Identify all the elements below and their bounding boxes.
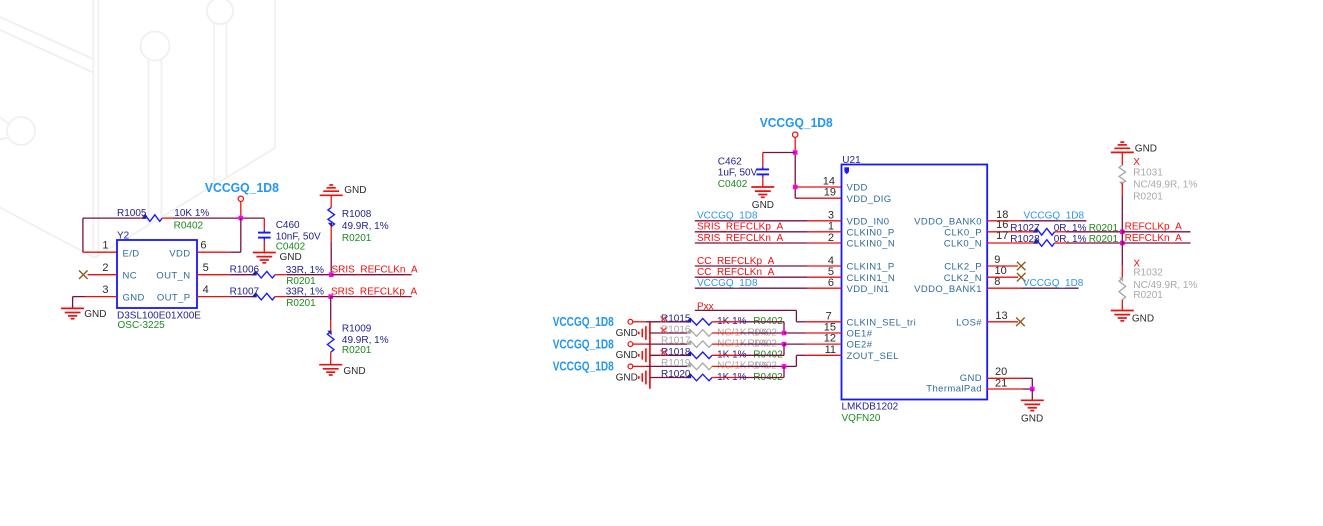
svg-text:8: 8: [994, 276, 1000, 288]
wire: [287, 274, 331, 276]
wire pin 21: [987, 388, 1022, 390]
svg-text:CLK2_N: CLK2_N: [944, 273, 982, 284]
resistor R1015: [686, 318, 712, 325]
resistor R1027: [1033, 228, 1055, 235]
wire: [799, 197, 842, 199]
resistor R1031 (NC): [1119, 165, 1126, 186]
svg-text:VQFN20: VQFN20: [842, 413, 881, 424]
resistor R1019: [686, 363, 712, 370]
junction OE2#: [782, 342, 787, 347]
wire net SRIS_REFCLKn_A: [331, 274, 411, 276]
svg-text:R0201: R0201: [1133, 191, 1163, 202]
svg-text:VCCGQ_1D8: VCCGQ_1D8: [205, 180, 279, 195]
svg-text:REFCLKn_A: REFCLKn_A: [1125, 233, 1183, 244]
wire: [712, 365, 740, 367]
junction C462 tap: [793, 150, 798, 155]
junction pin 14: [793, 185, 798, 190]
wire pin 18: [987, 220, 1020, 222]
svg-text:GND: GND: [343, 366, 365, 377]
wire pin 5 net CC_REFCLKn_A: [695, 276, 808, 278]
capacitor C462: [757, 166, 770, 187]
power symbol: [628, 319, 633, 324]
ground GND (R1031 top): [1111, 142, 1134, 152]
svg-text:CLKIN0_P: CLKIN0_P: [847, 227, 895, 238]
wire: [633, 343, 646, 345]
svg-text:12: 12: [824, 333, 836, 345]
svg-text:OE1#: OE1#: [847, 329, 873, 340]
wire: [1121, 152, 1123, 165]
no-connect X pin 10: [1017, 273, 1026, 282]
svg-text:33R, 1%: 33R, 1%: [286, 287, 324, 298]
wire pin 2 net SRIS_REFCLKn_A: [695, 242, 808, 244]
wire: [1121, 266, 1123, 279]
svg-text:GND: GND: [616, 372, 638, 383]
wire: [230, 251, 241, 253]
svg-text:17: 17: [996, 230, 1008, 242]
svg-text:VCCGQ_1D8: VCCGQ_1D8: [697, 211, 758, 222]
svg-text:1: 1: [828, 221, 834, 233]
ground (rotated): [639, 371, 646, 385]
no-connect X on pin 2: [79, 270, 88, 279]
svg-text:SRIS_REFCLKp_A: SRIS_REFCLKp_A: [697, 222, 783, 233]
wire: [794, 137, 796, 152]
wire: [330, 297, 332, 321]
wire: [794, 153, 796, 188]
junction REFCLKn_A: [1120, 241, 1125, 246]
junction VCC node: [239, 216, 244, 221]
wire: [330, 242, 332, 275]
junction OE1#: [782, 331, 787, 336]
svg-text:ThermalPad: ThermalPad: [926, 384, 982, 395]
svg-text:R0201: R0201: [1089, 234, 1119, 245]
svg-text:R1018: R1018: [661, 347, 691, 358]
svg-text:VCCGQ_1D8: VCCGQ_1D8: [697, 278, 758, 289]
wire net REFCLKp_A: [1122, 231, 1190, 233]
wire pin 10: [987, 276, 1018, 278]
svg-text:VCCGQ_1D8: VCCGQ_1D8: [1023, 278, 1084, 289]
wire net Pxx: [695, 309, 797, 311]
wire: [1121, 243, 1123, 266]
resistor R1028: [1033, 240, 1055, 247]
wire: [650, 354, 687, 356]
svg-text:R1020: R1020: [661, 369, 691, 380]
svg-text:C0402: C0402: [276, 242, 306, 253]
wire: [240, 202, 242, 219]
svg-text:VCCGQ_1D8: VCCGQ_1D8: [553, 314, 614, 329]
wire net SRIS_REFCLKp_A: [331, 296, 412, 298]
wire: [240, 218, 242, 252]
svg-text:ZOUT_SEL: ZOUT_SEL: [847, 351, 899, 362]
power symbol: [628, 342, 633, 347]
wire net REFCLKn_A: [1122, 242, 1190, 244]
power symbol: [628, 364, 633, 369]
resistor R1008: [328, 208, 335, 228]
svg-text:GND: GND: [280, 252, 302, 263]
power symbol: [793, 132, 798, 137]
wire: [1055, 242, 1066, 244]
svg-text:NC/49.9R, 1%: NC/49.9R, 1%: [1133, 179, 1197, 190]
resistor R1020: [686, 374, 712, 381]
wire pin 16: [987, 231, 1034, 233]
wire pin 14: [795, 186, 841, 188]
svg-text:GND: GND: [1132, 314, 1154, 325]
wire: [230, 296, 253, 298]
wire: [330, 352, 332, 365]
svg-text:C462: C462: [718, 156, 742, 167]
svg-text:19: 19: [824, 187, 836, 199]
svg-text:VCCGQ_1D8: VCCGQ_1D8: [553, 359, 614, 374]
svg-text:R1032: R1032: [1133, 268, 1163, 279]
capacitor C460: [258, 218, 271, 252]
wire pin 4 OUT_P: [197, 296, 230, 298]
svg-text:GND: GND: [616, 350, 638, 361]
svg-text:4: 4: [828, 255, 834, 267]
svg-text:CLK0_P: CLK0_P: [944, 227, 982, 238]
power symbol: [238, 196, 243, 201]
ground (rotated): [639, 326, 646, 340]
svg-text:2: 2: [102, 262, 108, 274]
svg-text:R1005: R1005: [117, 208, 147, 219]
resistor R1006: [252, 271, 275, 278]
wire pin 7: [796, 321, 806, 323]
svg-text:SRIS_REFCLKn_A: SRIS_REFCLKn_A: [697, 233, 783, 244]
svg-text:3: 3: [102, 284, 108, 296]
svg-text:1uF, 50V: 1uF, 50V: [718, 168, 758, 179]
svg-text:CC_REFCLKp_A: CC_REFCLKp_A: [697, 256, 775, 267]
svg-text:13: 13: [995, 310, 1007, 322]
svg-text:16: 16: [996, 219, 1008, 231]
svg-text:R1015: R1015: [661, 313, 691, 324]
svg-text:0R, 1%: 0R, 1%: [1054, 234, 1087, 245]
svg-text:R0201: R0201: [342, 233, 372, 244]
svg-text:10K 1%: 10K 1%: [174, 208, 209, 219]
IC U21 body: [842, 165, 988, 400]
svg-text:VDDO_BANK1: VDDO_BANK1: [914, 284, 982, 295]
svg-text:R1006: R1006: [230, 264, 260, 275]
svg-text:VDDO_BANK0: VDDO_BANK0: [914, 216, 982, 227]
wire: [712, 321, 740, 323]
wire: [783, 366, 785, 377]
svg-text:6: 6: [828, 277, 834, 289]
svg-text:CC_REFCLKn_A: CC_REFCLKn_A: [697, 267, 775, 278]
svg-text:R1017: R1017: [661, 336, 691, 347]
wire pin 13: [987, 321, 1018, 323]
svg-text:9: 9: [994, 254, 1000, 266]
wire: [83, 251, 117, 253]
wire pin 20: [987, 377, 1022, 379]
wire pin 19: [795, 197, 799, 199]
wire pin 8: [987, 287, 1022, 289]
wire: [330, 320, 332, 332]
svg-text:49.9R, 1%: 49.9R, 1%: [342, 221, 389, 232]
wire pin 3 net VCCGQ_1D8: [695, 220, 808, 222]
svg-text:R1007: R1007: [230, 286, 260, 297]
GND bus bar (rotated ground symbols): [649, 322, 651, 389]
svg-text:R0201: R0201: [1089, 223, 1119, 234]
svg-text:OSC-3225: OSC-3225: [118, 320, 166, 331]
svg-text:OUT_P: OUT_P: [157, 293, 191, 304]
svg-text:SRIS_REFCLKp_A: SRIS_REFCLKp_A: [331, 287, 417, 298]
svg-text:GND: GND: [752, 200, 774, 211]
svg-text:GND: GND: [1135, 143, 1157, 154]
svg-text:OE2#: OE2#: [847, 340, 873, 351]
wire pin 15: [784, 332, 806, 334]
no-connect X pin 9: [1017, 262, 1026, 271]
svg-text:R1027: R1027: [1010, 223, 1040, 234]
svg-text:LMKDB1202: LMKDB1202: [842, 401, 899, 412]
wire: [712, 343, 740, 345]
wire pin 3: [84, 296, 117, 298]
resistor R1016: [686, 330, 712, 337]
junction SRIS_REFCLKp_A: [328, 294, 333, 299]
svg-text:33R, 1%: 33R, 1%: [286, 265, 324, 276]
junction thermal pad: [1030, 387, 1035, 392]
svg-text:VDD_IN1: VDD_IN1: [847, 284, 890, 295]
red X marker (R1018): [661, 350, 667, 356]
svg-text:VCCGQ_1D8: VCCGQ_1D8: [760, 115, 833, 130]
svg-text:CLK2_P: CLK2_P: [944, 262, 982, 273]
resistor R1018: [686, 352, 712, 359]
svg-text:10: 10: [995, 265, 1007, 277]
wire: [173, 217, 264, 219]
ground (rotated): [639, 348, 646, 362]
svg-text:GND: GND: [1021, 413, 1043, 424]
svg-text:R0201: R0201: [1133, 290, 1163, 301]
svg-text:R0201: R0201: [286, 298, 316, 309]
svg-text:GND: GND: [616, 328, 638, 339]
svg-text:4: 4: [203, 284, 209, 296]
wire: [1121, 232, 1123, 243]
wire: [794, 187, 796, 198]
ground GND (R1032): [1111, 311, 1134, 321]
wire: [633, 321, 646, 323]
wire: [763, 152, 795, 154]
svg-text:5: 5: [203, 262, 209, 274]
resistor R1017: [686, 341, 712, 348]
svg-text:2: 2: [828, 232, 834, 244]
wire pin 17: [987, 242, 1034, 244]
svg-text:R0201: R0201: [286, 276, 316, 287]
ground GND (R1009): [319, 365, 342, 375]
resistor R1005: [142, 215, 163, 222]
wire: [330, 195, 332, 207]
wire: [287, 296, 331, 298]
svg-text:REFCLKp_A: REFCLKp_A: [1125, 222, 1183, 233]
ground GND (thermal pad): [1021, 400, 1044, 410]
wire pin 11: [806, 354, 842, 356]
svg-text:C0402: C0402: [718, 179, 748, 190]
wire: [650, 377, 687, 379]
wire: [1055, 231, 1066, 233]
svg-text:VDD_DIG: VDD_DIG: [847, 194, 892, 205]
wire: [712, 377, 740, 379]
svg-text:VCCGQ_1D8: VCCGQ_1D8: [553, 336, 614, 351]
junction SRIS_REFCLKn_A: [329, 272, 334, 277]
wire pin 4 net CC_REFCLKp_A: [695, 265, 808, 267]
svg-text:NC: NC: [123, 271, 138, 282]
ground GND (pin 3): [61, 308, 84, 318]
wire: [162, 217, 173, 219]
junction REFCLKp_A: [1120, 230, 1125, 235]
svg-text:R1019: R1019: [661, 358, 691, 369]
svg-text:R1008: R1008: [342, 209, 372, 220]
junction ZOUT_SEL: [782, 364, 787, 369]
svg-text:11: 11: [825, 344, 836, 356]
svg-text:U21: U21: [842, 155, 861, 166]
svg-text:CLKIN_SEL_tri: CLKIN_SEL_tri: [847, 317, 917, 328]
svg-text:R0402: R0402: [174, 220, 204, 231]
svg-text:E/D: E/D: [123, 248, 140, 259]
svg-text:7: 7: [826, 310, 832, 322]
svg-text:LOS#: LOS#: [956, 317, 982, 328]
svg-text:CLKIN0_N: CLKIN0_N: [847, 239, 896, 250]
svg-text:20: 20: [995, 366, 1007, 378]
svg-text:CLKIN1_N: CLKIN1_N: [847, 273, 896, 284]
wire pin 1 net SRIS_REFCLKp_A: [695, 231, 808, 233]
wire pin 6 VDD: [197, 251, 230, 253]
wire: [783, 322, 785, 333]
wire pin 2: [88, 274, 117, 276]
red X marker (R1016): [661, 328, 667, 334]
svg-text:VCCGQ_1D8: VCCGQ_1D8: [1024, 211, 1085, 222]
svg-text:R1028: R1028: [1010, 234, 1040, 245]
oscillator Y2 body: [117, 240, 197, 308]
svg-text:R1031: R1031: [1133, 167, 1163, 178]
resistor R1009: [327, 331, 334, 353]
svg-text:14: 14: [823, 175, 835, 187]
svg-text:VDD: VDD: [169, 248, 190, 259]
wire: [72, 297, 74, 309]
svg-text:Y2: Y2: [117, 231, 130, 242]
svg-text:1: 1: [102, 240, 108, 252]
svg-text:21: 21: [995, 377, 1007, 389]
svg-text:VDD: VDD: [847, 183, 868, 194]
wire pin 5 OUT_N: [197, 274, 230, 276]
svg-text:GND: GND: [84, 309, 106, 320]
wire to pin 1: [82, 218, 84, 252]
svg-text:GND: GND: [960, 373, 982, 384]
svg-text:OUT_N: OUT_N: [156, 271, 190, 282]
wire: [140, 217, 142, 219]
svg-text:R0201: R0201: [342, 345, 372, 356]
ground GND inverted: [320, 185, 343, 195]
ground GND (C460): [253, 253, 276, 263]
wire: [275, 296, 287, 298]
resistor R1007: [252, 293, 275, 300]
svg-text:CLKIN1_P: CLKIN1_P: [847, 262, 895, 273]
svg-text:R1016: R1016: [661, 325, 691, 336]
wire: [230, 274, 253, 276]
wire: [275, 274, 287, 276]
svg-text:CLK0_N: CLK0_N: [944, 239, 982, 250]
svg-text:GND: GND: [123, 293, 145, 304]
wire pin 9: [987, 265, 1018, 267]
wire: [1031, 378, 1033, 389]
svg-text:6: 6: [200, 240, 206, 252]
wire: [650, 332, 687, 334]
red X marker (R1015): [661, 316, 667, 322]
wire: [762, 153, 764, 167]
resistor R1032 (NC): [1119, 277, 1126, 299]
svg-text:C460: C460: [276, 220, 300, 231]
wire: [633, 365, 646, 367]
wire: [783, 344, 785, 355]
wire: [712, 332, 740, 334]
wire: [73, 296, 85, 298]
wire pin 6 net VCCGQ_1D8: [695, 287, 808, 289]
wire: [712, 354, 740, 356]
wire: [330, 226, 332, 241]
no-connect X pin 13: [1016, 318, 1025, 327]
pin-1 marker: [844, 167, 849, 172]
svg-text:0R, 1%: 0R, 1%: [1054, 223, 1087, 234]
svg-text:SRIS_REFCLKn_A: SRIS_REFCLKn_A: [332, 265, 418, 276]
wire: [1121, 300, 1123, 311]
svg-text:GND: GND: [344, 185, 366, 196]
wire: [1121, 183, 1123, 196]
svg-text:VDD_IN0: VDD_IN0: [847, 216, 890, 227]
wire: [1031, 389, 1033, 400]
wire VCC rail: [83, 217, 140, 219]
svg-text:R1009: R1009: [342, 324, 372, 335]
wire pin 12: [784, 343, 806, 345]
ground GND (C462): [751, 187, 774, 197]
wire: [795, 310, 797, 321]
wire: [1121, 197, 1123, 232]
